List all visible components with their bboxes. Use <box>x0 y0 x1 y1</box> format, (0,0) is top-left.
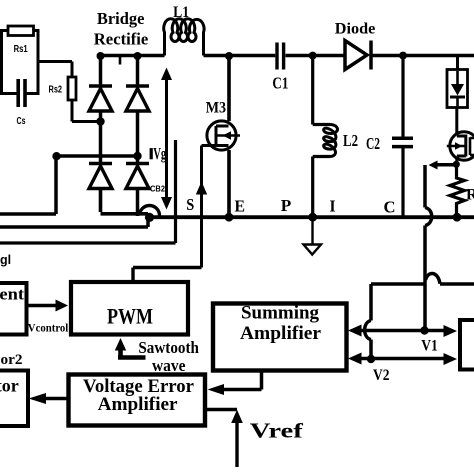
wire Rs2 bottom to bridge node <box>72 100 101 122</box>
wire summing out down <box>222 371 262 390</box>
node dot C2 top <box>399 52 407 60</box>
wire V1 sense vertical upper <box>423 165 427 208</box>
capacitor C1 <box>277 43 284 70</box>
arrow sawtooth into PWM <box>118 347 146 358</box>
svg-text:C1: C1 <box>272 74 288 93</box>
wire L2 branch bottom <box>313 157 330 217</box>
capacitor C2 <box>392 138 413 146</box>
svg-text:Bridge: Bridge <box>97 9 145 28</box>
label |Vg| <box>150 148 153 159</box>
diode D2 top-right <box>126 86 149 111</box>
diode D5 output <box>345 41 371 70</box>
svg-text:Sawtooth: Sawtooth <box>138 338 199 357</box>
wire diode to right edge <box>371 54 474 58</box>
wire hop over bus <box>425 208 432 226</box>
node dot bridge left mid <box>96 117 104 125</box>
wire right column mid <box>136 111 140 164</box>
svg-text:rent: rent <box>0 285 24 304</box>
wire right at y284 <box>440 282 474 286</box>
box comparator (clipped right) <box>460 320 474 370</box>
arrow line V1 <box>359 329 446 333</box>
svg-text:V1: V1 <box>421 338 438 355</box>
block Summing Amplifier <box>213 304 347 371</box>
svg-text:Cs: Cs <box>17 115 26 127</box>
wire bridge left column top <box>99 56 103 86</box>
svg-text:M3: M3 <box>206 100 227 117</box>
node dot V1 on arrow line <box>420 326 428 334</box>
wire bridge top rail <box>99 54 165 58</box>
node dot bridge top left <box>97 52 105 60</box>
wire V1 sense vertical lower <box>423 226 427 331</box>
node dot V2 <box>367 355 375 363</box>
svg-text:or2: or2 <box>1 352 23 368</box>
polarity tick <box>119 57 122 65</box>
wire right column bottom to bus <box>136 189 140 217</box>
wire bus to V1 junction <box>371 284 424 321</box>
svg-text:Rs2: Rs2 <box>49 84 63 96</box>
svg-text:Summing: Summing <box>241 304 320 324</box>
svg-text:S: S <box>186 195 194 214</box>
wire to V2 <box>369 340 373 359</box>
svg-text:Amplifier: Amplifier <box>240 324 321 344</box>
wire hop over V1 line <box>365 321 371 340</box>
wire Vref into VEA <box>206 408 237 412</box>
svg-text:CB2: CB2 <box>150 185 166 194</box>
arrowhead gate drive up <box>196 182 207 195</box>
wire left column bottom to bus <box>101 189 149 214</box>
svg-text:Diode: Diode <box>335 19 376 37</box>
svg-text:L2: L2 <box>343 131 358 150</box>
svg-text:Rectifie: Rectifie <box>94 29 149 48</box>
svg-text:gl: gl <box>0 253 11 267</box>
svg-text:C2: C2 <box>366 134 380 153</box>
wire V1 sense from Q2 <box>437 163 456 167</box>
ground <box>304 219 322 255</box>
arrow Vref <box>235 420 238 467</box>
arrow line V2 <box>359 357 446 361</box>
diode D3 bottom-left <box>89 164 112 189</box>
svg-text:E: E <box>235 197 246 216</box>
wire sense line D <box>0 140 176 243</box>
block Voltage Error Amplifier <box>69 375 206 426</box>
wire zener box to Q2 <box>455 108 458 134</box>
node dot R bottom on bus <box>453 213 462 222</box>
resistor R <box>450 166 465 215</box>
svg-text:C: C <box>384 198 396 217</box>
node dot bridge top right <box>134 52 142 60</box>
svg-text:Vcontrol: Vcontrol <box>28 321 69 335</box>
box current controller (clipped) <box>0 283 27 335</box>
wire L1 to C1 <box>204 54 276 58</box>
wire left column mid <box>99 111 103 164</box>
arrow current to PWM <box>27 304 58 307</box>
svg-text:PWM: PWM <box>107 303 153 328</box>
svg-text:R: R <box>466 187 474 204</box>
wire AC input <box>0 156 138 214</box>
node dot AC corner <box>52 152 60 160</box>
svg-text:Vref: Vref <box>250 418 304 442</box>
zener diode inside <box>450 71 465 108</box>
node dot Q2 source <box>453 161 460 168</box>
arrowhead into VEA <box>208 384 225 395</box>
node dot L2 bottom on bus <box>308 213 317 222</box>
resistor Rs1 <box>8 26 34 36</box>
node dot M3 source on bus <box>225 213 234 222</box>
zener box U2 <box>447 70 468 108</box>
node dot M3 drain junction <box>225 52 233 60</box>
box resistor2 (clipped) <box>0 371 28 427</box>
wire sense line C <box>0 218 148 227</box>
wire PWM to gate <box>133 268 202 283</box>
svg-text:Rs1: Rs1 <box>14 43 28 55</box>
inductor L1 <box>164 19 204 56</box>
wire L2 branch top <box>313 56 330 125</box>
wire snubber loop left side <box>2 29 17 95</box>
arrow VEA to box <box>44 397 69 400</box>
current sensor CB2 arc <box>140 206 160 216</box>
wire bridge right column top <box>136 56 140 86</box>
diode D4 bottom-right <box>126 164 149 189</box>
svg-text:Amplifier: Amplifier <box>98 394 179 415</box>
wire C2 branch bottom <box>401 148 404 216</box>
wire C2 branch top <box>401 56 404 137</box>
block PWM <box>71 282 188 335</box>
svg-text:tor: tor <box>0 375 19 395</box>
node dot CB2 <box>145 213 154 222</box>
node dot bridge right mid <box>133 152 141 160</box>
wire C1 to diode <box>286 54 346 58</box>
mosfet Q2 <box>447 132 474 163</box>
wire Rs1 right to Rs2 <box>27 29 73 95</box>
svg-text:V2: V2 <box>373 367 390 384</box>
wire hop right of junction <box>426 273 441 283</box>
measure arrow |Vg| double-headed <box>161 68 172 210</box>
arrowhead V1 sense left <box>429 161 438 170</box>
resistor Rs2 <box>68 77 76 100</box>
capacitor Cs <box>18 79 25 107</box>
svg-text:I: I <box>330 197 336 216</box>
svg-text:P: P <box>281 196 292 215</box>
diode D1 top-left <box>89 86 112 111</box>
mosfet M3 <box>202 56 241 268</box>
node dot L2 top <box>309 52 317 60</box>
inductor L2 <box>324 125 338 157</box>
wire zener branch top <box>456 56 459 70</box>
svg-text:Vg: Vg <box>153 144 166 163</box>
bus rail SEPIC <box>146 215 474 219</box>
